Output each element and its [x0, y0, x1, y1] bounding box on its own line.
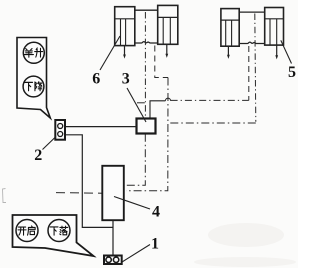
- text xia-luo: [50, 226, 68, 235]
- cylinder 6 rod with arrow: [124, 46, 126, 56]
- right pair frame top line: [239, 11, 265, 13]
- svg-text:5: 5: [288, 64, 296, 81]
- left pair axis line (dash-dot): [144, 12, 146, 118]
- text kai-qi: [18, 226, 35, 235]
- left pair right cylinder rod with arrow: [166, 44, 168, 54]
- text xia-jiang: [25, 82, 42, 91]
- cylinder 6 outer body: [115, 7, 135, 46]
- left pair frame top line: [135, 9, 158, 11]
- wire from switch 2 lower, down and right to pump rod: [65, 135, 113, 228]
- button circle fall: [48, 220, 70, 242]
- cylinder C cap line: [221, 19, 239, 21]
- button circle open: [16, 220, 38, 242]
- wire V2 from valve 3 bottom to valve 4 (dash-dot): [126, 134, 145, 186]
- left pair linkage drop line (dashed): [155, 46, 168, 78]
- dashed stub into valve 4 left side: [56, 192, 102, 195]
- text ju-sheng: [24, 48, 42, 57]
- callout bubble bottom-left: [13, 215, 94, 256]
- pump 1: [104, 256, 122, 265]
- cylinder 6 cap line: [115, 18, 135, 20]
- svg-text:3: 3: [122, 71, 130, 88]
- watermark smudge: [194, 223, 296, 267]
- solid elbow from valve 3 top to node: [150, 101, 165, 119]
- scan artifact bracket: [3, 189, 7, 203]
- callout bubble top-left: [17, 38, 50, 119]
- svg-text:1: 1: [151, 235, 159, 252]
- left pair right cylinder cap line: [158, 16, 178, 18]
- leader line for 5: [281, 40, 292, 63]
- cylinder 5 body: [265, 8, 284, 46]
- leader line for 3: [127, 88, 146, 122]
- wire H2 dash-dot from axis corner to V1 junction: [168, 122, 256, 124]
- wire from valve 4 bottom to pump 1: [112, 220, 114, 255]
- wire H1 small dash left of elbow: [137, 102, 145, 104]
- right pair frame bottom line with break squiggle: [239, 42, 265, 43]
- left pair right cylinder body: [158, 5, 178, 44]
- leader line for 1: [122, 245, 150, 263]
- button circle raise: [23, 42, 44, 63]
- svg-text:6: 6: [92, 71, 100, 88]
- wire V1 from left pair corner down to valve 4 (dash-dot): [126, 78, 168, 191]
- cylinder 5 cap line: [265, 18, 284, 20]
- node hop over V1: [165, 98, 170, 101]
- valve 3: [137, 119, 156, 134]
- switch 2: [55, 120, 65, 140]
- wire from switch 2 to valve 3: [65, 126, 137, 128]
- cylinder 5 rod with arrow: [276, 45, 278, 56]
- leader line for 2: [43, 137, 57, 150]
- leader line for 6: [100, 36, 120, 70]
- cylinder 6 bore lines: [121, 19, 126, 46]
- right pair linkage drop line (dashed): [248, 46, 250, 100]
- right pair axis line (dash-dot, turns left to junction): [255, 14, 256, 122]
- switch 2 button circles: [58, 124, 63, 137]
- cylinder C (right pair left) body: [221, 9, 239, 47]
- cylinder 5 bore lines: [270, 19, 277, 45]
- pump 1 circles: [106, 257, 119, 262]
- left pair frame bottom line with break squiggle: [135, 42, 158, 43]
- svg-text:2: 2: [34, 147, 42, 164]
- left pair right cylinder bore lines: [163, 17, 170, 44]
- valve 4: [102, 166, 124, 220]
- wire H1 dash-dot right of hop to corner: [171, 99, 249, 101]
- svg-text:4: 4: [152, 203, 160, 220]
- cylinder C bore lines: [226, 20, 232, 46]
- cylinder C rod with arrow: [227, 46, 229, 55]
- leader line for 4: [114, 197, 150, 210]
- button circle lower: [23, 76, 44, 97]
